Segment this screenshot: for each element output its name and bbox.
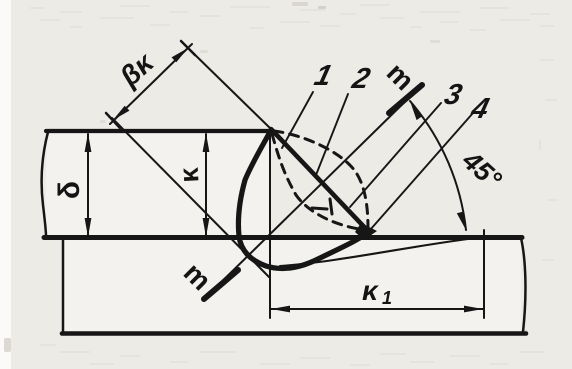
dimension kappa1 line: [271, 308, 483, 310]
label 4: [467, 92, 492, 124]
weld face extension (thin): [188, 48, 272, 130]
label 45 degrees: [456, 145, 507, 195]
beta-kappa tick lower: [106, 113, 120, 128]
label 1: [311, 59, 335, 91]
delta arrow down: [85, 218, 92, 237]
thin arc below surface to k1 toe: [280, 237, 484, 266]
label 2: [348, 62, 374, 94]
weld toe junction: [355, 223, 377, 240]
kappa1 arrow right: [464, 306, 483, 313]
leader line 4: [370, 113, 473, 230]
line m-m (thin): [206, 87, 420, 297]
vertical line through root: [269, 131, 271, 318]
leader line 1: [282, 92, 313, 148]
svg-text:δ: δ: [53, 181, 86, 199]
dimension kappa line: [205, 134, 207, 235]
dimension delta line: [87, 134, 89, 235]
delta arrow up: [85, 133, 92, 152]
dashed convex profile curve: [274, 131, 368, 228]
upper plate top edge: [46, 129, 272, 133]
weld face (thick): [271, 129, 368, 231]
right extension line: [483, 230, 485, 318]
label kappa: [174, 166, 205, 184]
beta-kappa arrow upper: [172, 48, 189, 62]
arc arrow lower (at surface): [457, 212, 466, 231]
svg-text:κ: κ: [362, 275, 379, 306]
upper plate fill: [45, 133, 270, 236]
label beta-kappa: [113, 46, 160, 93]
45-degree arc: [410, 101, 466, 230]
kappa arrow down: [203, 218, 210, 237]
dimension beta-kappa line: [110, 44, 192, 124]
line m-m upper thick segment: [389, 85, 422, 113]
label delta: [53, 181, 86, 199]
kappa arrow up: [203, 133, 210, 152]
svg-text:1: 1: [382, 288, 392, 308]
lower plate bottom edge: [62, 331, 526, 336]
arc arrow upper (at m-m): [410, 101, 422, 120]
beta-kappa arrow lower: [113, 106, 130, 120]
arrowheads: [85, 48, 483, 312]
dashed concave profile curve: [272, 134, 366, 230]
line m-m lower thick segment: [204, 270, 238, 299]
label 3: [441, 78, 466, 110]
plate surface line: [44, 235, 522, 240]
dashed right-angle mark: [312, 199, 332, 214]
svg-text:κ: κ: [174, 166, 205, 184]
beta-kappa tick upper: [181, 41, 195, 55]
leader line 2: [316, 94, 348, 175]
lower plate fill: [63, 239, 521, 331]
upper plate left break line: [42, 132, 48, 236]
lower plate right break line: [521, 238, 525, 332]
label m lower: [178, 257, 218, 297]
line parallel to weld face through root (from dimension tick): [112, 118, 269, 277]
lower plate left edge: [62, 239, 65, 332]
weld penetration outline (thick curve): [238, 130, 369, 268]
kappa1 arrow left: [271, 306, 290, 313]
leader line 3: [350, 103, 441, 207]
label m upper: [381, 57, 421, 97]
